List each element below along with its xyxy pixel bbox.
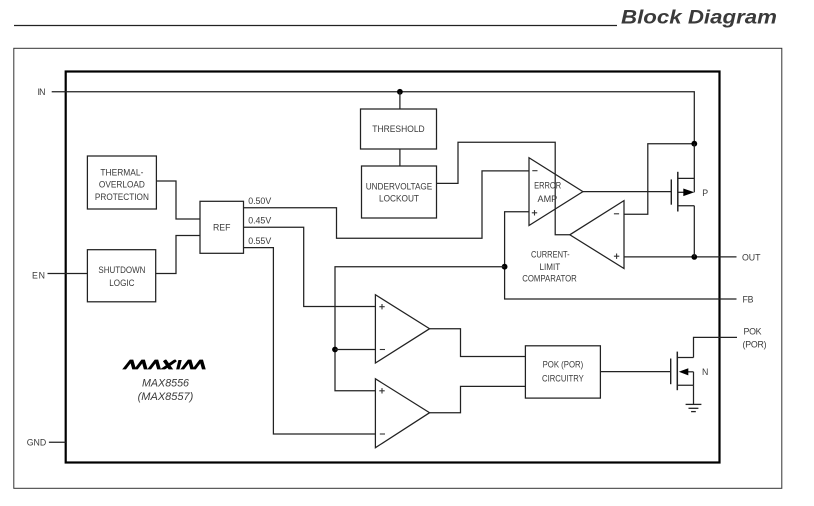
op-amp U2 current-limit comparator — [570, 201, 624, 269]
svg-text:SHUTDOWN: SHUTDOWN — [98, 265, 145, 275]
wire error amp output to P-FET gate — [583, 191, 671, 193]
node IN sense junction — [691, 141, 697, 147]
svg-text:0.50V: 0.50V — [248, 196, 272, 206]
svg-text:OVERLOAD: OVERLOAD — [99, 180, 145, 190]
wire comparator A output to POK circuitry — [430, 329, 526, 357]
wire FB branch to POK comparators — [335, 267, 505, 391]
svg-text:0.55V: 0.55V — [248, 236, 272, 246]
box SHUTDOWN LOGIC — [87, 250, 155, 302]
wire REF 0.45V to POK comparator A + input — [244, 227, 376, 306]
ground — [686, 404, 702, 411]
svg-text:LIMIT: LIMIT — [540, 262, 561, 272]
wire OUT line (current-limit + input to OUT pin) — [624, 256, 737, 258]
box THRESHOLD — [361, 109, 437, 149]
comparator B (POK lower) — [375, 379, 429, 448]
op-amp U1 error amp — [529, 158, 583, 226]
svg-text:0.45V: 0.45V — [248, 216, 272, 226]
svg-text:EN: EN — [32, 270, 45, 280]
svg-text:Block Diagram: Block Diagram — [621, 7, 777, 29]
pin label POK (POR) — [743, 326, 767, 349]
svg-text:(POR): (POR) — [743, 339, 767, 349]
label CURRENT- LIMIT COMPARATOR — [522, 249, 577, 283]
svg-text:REF: REF — [213, 223, 231, 233]
svg-text:UNDERVOLTAGE: UNDERVOLTAGE — [366, 181, 433, 191]
box REF — [200, 201, 244, 253]
svg-text:FB: FB — [743, 294, 754, 304]
svg-text:THRESHOLD: THRESHOLD — [372, 124, 425, 134]
wire THRESHOLD to UVLO — [399, 149, 401, 166]
svg-text:N: N — [702, 367, 708, 377]
svg-text:LOGIC: LOGIC — [109, 278, 134, 288]
svg-text:MAX8556: MAX8556 — [142, 378, 190, 390]
wire UVLO output to current-limit comparator output node — [437, 142, 570, 235]
svg-text:POK (POR): POK (POR) — [543, 359, 584, 369]
wire IN junction down to THRESHOLD — [399, 92, 401, 109]
svg-text:AMP: AMP — [538, 194, 558, 204]
wire thermal-overload to REF — [156, 181, 200, 219]
wire comparator B output to POK circuitry — [430, 386, 526, 412]
box THERMAL-OVERLOAD PROTECTION — [87, 156, 156, 209]
wire current-limit - input to IN sense node — [624, 144, 694, 215]
svg-text:CIRCUITRY: CIRCUITRY — [542, 374, 584, 384]
box POK (POR) CIRCUITRY — [525, 346, 600, 398]
wire REF 0.50V to error amp inverting input — [244, 171, 530, 238]
svg-text:GND: GND — [27, 438, 47, 448]
svg-text:IN: IN — [38, 87, 46, 97]
svg-text:PROTECTION: PROTECTION — [95, 192, 149, 202]
transistor Q1 P-channel pass FET — [671, 144, 708, 257]
wire IN rail — [52, 92, 695, 144]
node OUT junction — [691, 254, 697, 260]
svg-text:COMPARATOR: COMPARATOR — [522, 274, 577, 284]
node FB junction at error amp branch — [502, 264, 508, 270]
wire EN — [48, 273, 88, 275]
box UNDERVOLTAGE LOCKOUT — [362, 166, 437, 218]
svg-text:(MAX8557): (MAX8557) — [138, 391, 194, 403]
wire shutdown logic to REF — [156, 236, 200, 274]
svg-text:ERROR: ERROR — [534, 180, 561, 190]
svg-text:CURRENT-: CURRENT- — [531, 249, 570, 259]
wire GND — [49, 441, 66, 443]
svg-text:POK: POK — [744, 326, 762, 336]
svg-text:THERMAL-: THERMAL- — [100, 167, 143, 177]
wire FB branch to comparator A - input — [335, 349, 375, 351]
wire FB net: FB pin to error amp + input — [505, 212, 737, 299]
comparator A (POK upper) — [375, 295, 429, 363]
node FB branch junction at comparator A — [332, 347, 338, 353]
wire POK circuitry to N-FET gate — [600, 371, 670, 373]
transistor Q2 N-channel POK FET — [671, 352, 709, 391]
svg-text:P: P — [702, 188, 708, 198]
title rule — [14, 25, 617, 27]
wire N-FET source to ground — [693, 385, 695, 404]
IC boundary box — [66, 72, 720, 463]
node: IN junction above THRESHOLD — [397, 89, 403, 95]
svg-text:LOCKOUT: LOCKOUT — [379, 193, 419, 203]
wire REF 0.55V to POK comparator B - input — [244, 248, 376, 434]
svg-text:OUT: OUT — [742, 252, 761, 262]
wire N-FET drain to POK pin — [694, 337, 738, 357]
